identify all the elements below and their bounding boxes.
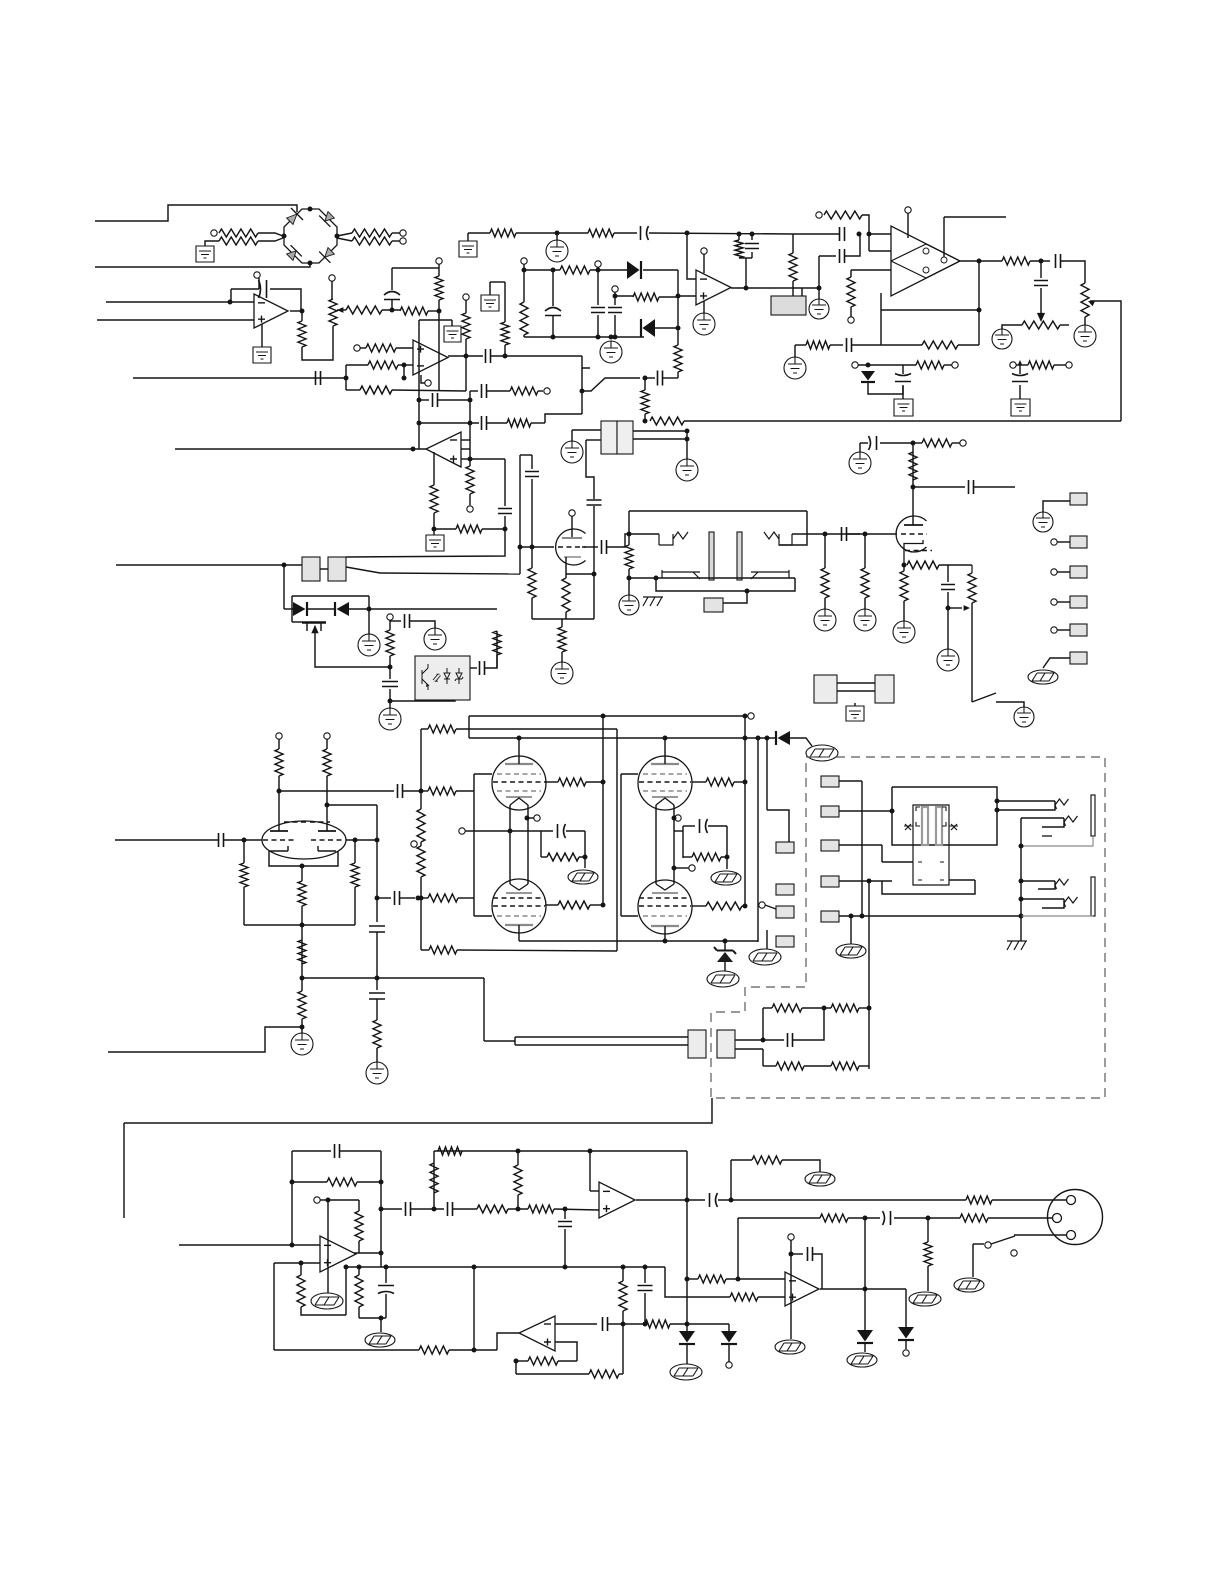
connector pin P401-2 (1070, 536, 1087, 548)
node 1218 b (926, 1216, 931, 1221)
wire R6 mid (382, 309, 400, 311)
jack J101 sleeve wire (1021, 836, 1093, 846)
ground chassis G33 (806, 745, 838, 761)
wire pin4 lead (1057, 601, 1070, 603)
diode D5 (335, 602, 349, 616)
wire fb row1 a (763, 1007, 772, 1009)
zener D8 (857, 1330, 873, 1343)
wire chassis riser b (766, 930, 768, 949)
node x687 b (685, 1322, 690, 1327)
wire d row ext (369, 608, 497, 610)
wire label stem (723, 591, 747, 603)
node V7 grid R (353, 838, 358, 843)
ground chassis G46 (775, 1340, 805, 1354)
resistor R51 (547, 853, 579, 861)
node U7 minus (290, 1243, 295, 1248)
terminal pin3 (1051, 569, 1057, 575)
wire fb row1 b (802, 1007, 831, 1009)
resistor R14 (824, 211, 862, 219)
wire R43 out (734, 781, 745, 783)
wire fb cap lead (763, 1039, 784, 1041)
wire pin3 lead (1057, 571, 1070, 573)
capacitor C52 (219, 833, 224, 847)
wire T2 rail578 (629, 577, 795, 579)
node D2 right (676, 326, 681, 331)
ground G17 (551, 662, 573, 684)
wire U5 below (469, 459, 471, 466)
resistor R46 (417, 809, 425, 842)
tube V4 (638, 756, 692, 810)
wire R14 right (862, 215, 869, 251)
node driveA x603 (601, 714, 606, 719)
wire plate riser (757, 738, 759, 942)
node R45 (743, 904, 748, 909)
ground chassis box G13 (1011, 399, 1030, 416)
ground chassis box G18 (426, 535, 444, 551)
V6 grid3 (643, 915, 687, 917)
jack J101 tip spring (1055, 799, 1069, 809)
wire X3 lead (839, 844, 882, 846)
wire K2 out slant (346, 567, 380, 573)
capacitor C1 feedback (259, 280, 267, 298)
wire U2 in2 (869, 250, 891, 252)
ground G30 (1033, 512, 1053, 532)
node K2d (672, 866, 677, 871)
wire F1 link2 (837, 690, 875, 692)
wire R61 top (301, 906, 303, 925)
wire pin6 lead (1043, 658, 1070, 668)
wire C11 right (1061, 261, 1085, 283)
node B+ c2 (756, 736, 761, 741)
wire V6 g lead (692, 905, 706, 907)
wire T3 tap row (882, 861, 913, 863)
relay contact K2a (302, 557, 320, 581)
diode D2 (641, 319, 655, 337)
wire out line1 (760, 1199, 966, 1201)
node net top (551, 268, 556, 273)
wire U8 out (636, 1199, 705, 1201)
wire R59 bot (243, 887, 245, 925)
V3 plate (505, 763, 533, 765)
wire rail1267 (346, 1266, 665, 1268)
node U3 plus (676, 294, 681, 299)
node y378b (643, 376, 648, 381)
wire V7 right drop (354, 840, 356, 863)
wire screen tie right (620, 774, 622, 916)
node bridge L (282, 234, 287, 239)
node x419 b (417, 421, 422, 426)
resistor R44 (558, 901, 590, 909)
V7 top dash a (284, 821, 306, 823)
ground chassis box G3 (481, 295, 499, 311)
wire G15 drop (571, 430, 573, 441)
node x346 (344, 1265, 349, 1270)
wire V2 plate stem (912, 443, 914, 525)
terminal U1 top (254, 272, 260, 278)
wire 1318 stem (380, 1318, 382, 1332)
resistor R49 (428, 787, 456, 795)
node J19 (613, 294, 618, 299)
resistor R56 (831, 1062, 859, 1070)
wire input y378 (133, 377, 346, 379)
wire x645 net (644, 1267, 646, 1283)
node bridge R (335, 234, 340, 239)
wire R15 bot (792, 281, 794, 296)
node jack common a (1019, 844, 1024, 849)
ground G15 (561, 441, 583, 463)
terminal U2 top (905, 207, 911, 213)
resistor R68 (430, 1163, 438, 1193)
resistor R54 (831, 1004, 859, 1012)
wire x505 loop (504, 459, 506, 506)
node prl a (663, 939, 668, 944)
node B+ a (517, 736, 522, 741)
resistor R57 (275, 749, 283, 776)
ground chassis G49 (670, 1364, 702, 1380)
resistor R50 (428, 894, 458, 902)
terminal J7 (816, 212, 822, 218)
wire R84 bot (358, 1307, 360, 1318)
wire K2d lead (674, 867, 689, 869)
capacitor C23 (482, 384, 487, 398)
node y1209 f (563, 1207, 568, 1212)
wire fb row1 c (859, 1007, 869, 1009)
wire C29 right (974, 486, 1015, 488)
terminal J13 (544, 388, 550, 394)
wire x520 (519, 455, 521, 574)
wire TB3 lead (765, 905, 776, 909)
wire R13 left (615, 295, 633, 297)
terminal TP5 (726, 1362, 732, 1368)
wire out line1 b (992, 1199, 1066, 1201)
capacitor C27 (480, 661, 485, 675)
wire U1 fb top (231, 288, 259, 290)
transformer T3 polarity marks (905, 824, 957, 830)
node out357 (503, 354, 508, 359)
terminal J1 (211, 230, 217, 236)
resistor R20 (916, 361, 944, 369)
node cath left (508, 829, 513, 834)
node T3 s1 (890, 809, 895, 814)
V4 grid1 (643, 773, 687, 775)
wire R61 bot (301, 925, 303, 978)
wire U4 minus drop (345, 365, 347, 378)
wire y791 c (421, 790, 428, 792)
terminal J3 (400, 238, 406, 244)
resistor R52 (692, 853, 721, 861)
wire R79 bot (622, 1311, 624, 1374)
terminal SW2 b (1011, 1250, 1017, 1256)
wire y345 mid (852, 344, 881, 346)
wire R36 bot (864, 598, 866, 609)
wire U9 minus row c (670, 1323, 729, 1325)
wire P1 stem (331, 281, 333, 299)
resistor R35 (821, 568, 829, 598)
V2 cathode hook (904, 540, 923, 565)
ground G8 (693, 313, 715, 335)
terminal TP3 (411, 841, 417, 847)
wire R83 top (300, 1263, 302, 1275)
node rail233 gnd (555, 231, 560, 236)
resistor R76 (730, 1293, 758, 1301)
node y529 (432, 527, 437, 532)
connector pin X3 (821, 840, 839, 851)
wire Q1 s1 (306, 623, 308, 631)
op-amp U10 (785, 1272, 819, 1306)
wire x284 drop (283, 565, 285, 609)
resistor R72 (966, 1196, 992, 1204)
wire J19 stem (614, 292, 616, 296)
ground chassis G34 (749, 949, 781, 965)
wire R23 top (531, 547, 533, 568)
wire G50 stem (794, 345, 796, 357)
transformer T2 winding a (659, 532, 688, 545)
node x419 a (417, 398, 422, 403)
node x615 bot (613, 335, 618, 340)
wire jack1 lead b (997, 801, 1055, 810)
ground G22 (619, 595, 639, 615)
wire T2 top (629, 510, 807, 512)
transformer T2 winding c (662, 570, 700, 579)
node T3 p2 (995, 808, 1000, 813)
ground chassis G37 (707, 971, 739, 987)
wire cath bus V4V6 b (673, 805, 675, 884)
wire C13 bot (1019, 385, 1021, 399)
wire minus riser (403, 365, 405, 378)
wire y950 lead (421, 949, 429, 951)
potentiometer P2 (1081, 283, 1089, 317)
node label tap (745, 589, 750, 594)
node V2 sg (911, 485, 916, 490)
wire T2 gnd stem (628, 578, 630, 595)
node V1 grid (530, 545, 535, 550)
node jack common b (1019, 897, 1024, 902)
wire R40 bot (903, 601, 905, 621)
jack plug PL2 (717, 1030, 735, 1058)
node rail233 e (685, 231, 690, 236)
wire driveA corner (468, 716, 470, 738)
wire R84 stem (358, 1267, 360, 1275)
node 1324 b (643, 1322, 648, 1327)
resistor R4 (352, 237, 392, 245)
resistor R86 (430, 485, 438, 513)
wire RC loop left (391, 268, 393, 290)
wire rail1151 a (434, 1150, 687, 1152)
wire fb row drop (345, 378, 347, 390)
wire x505 drop (346, 529, 505, 557)
V2 plate bar (904, 524, 923, 526)
wire y320 (419, 319, 452, 321)
wire U10 comp drop (790, 1240, 792, 1339)
ground chassis G38 (836, 944, 866, 958)
node U10 comp (789, 1252, 794, 1257)
wire U7 fb top a (292, 1150, 331, 1152)
transformer T3 winding bar 1 (922, 807, 928, 845)
wire U5 plus stub (461, 458, 470, 460)
wire V7b stem (326, 739, 328, 749)
wire long fb (124, 1098, 712, 1123)
jack J102 sleeve (1091, 877, 1095, 916)
capacitor C10 (840, 227, 845, 241)
node y1350 (472, 1348, 477, 1353)
wire C13 stem (1019, 365, 1021, 374)
V3 grid1 (497, 773, 541, 775)
ground chassis G35 (568, 870, 598, 884)
node U2 fb (977, 308, 982, 313)
capacitor C16 (525, 472, 539, 477)
node T1R1 (685, 429, 690, 434)
wire diode loop top (292, 595, 369, 597)
wire pin2 lead (1057, 541, 1070, 543)
wire RC1 rlead (541, 856, 547, 858)
wire C42 bot (564, 1229, 566, 1267)
wire spk join (514, 1037, 516, 1045)
wire cath bus V3V5 a (509, 805, 511, 884)
wire R35 bot (824, 598, 826, 609)
terminal K2c (675, 815, 681, 821)
resistor R9 (435, 276, 443, 300)
node J5 (596, 268, 601, 273)
wire C12 bot (1040, 288, 1042, 311)
ground chassis box G14 (894, 399, 913, 416)
resistor R19 (1028, 361, 1054, 369)
terminal V1 top (569, 510, 575, 516)
capacitor C29 (969, 480, 974, 494)
wire C31 stem (947, 565, 949, 582)
resistor R13 (633, 293, 659, 301)
resistor R10 (490, 229, 516, 237)
resistor R36 (861, 568, 869, 598)
wire d row a (284, 608, 293, 610)
wire V7b drop (326, 776, 328, 831)
wire R19 right (1054, 364, 1066, 366)
wire C27 right (485, 631, 497, 668)
resistor R90 (360, 386, 392, 394)
enclosure dashed box (711, 757, 1105, 1098)
wire pin5 lead (1057, 629, 1070, 631)
wire y423 jog (545, 414, 582, 423)
wire y925 (244, 924, 355, 926)
wire jack common (1020, 818, 1022, 941)
wire TP1 right (1060, 324, 1069, 326)
wire cap row621 b (410, 621, 435, 628)
wire 1218 a (848, 1217, 880, 1219)
wire x474 fb (473, 1267, 475, 1350)
wire V7 right (346, 839, 377, 841)
node bridge B (308, 261, 313, 266)
wire x615 bot (614, 315, 616, 337)
capacitor C12 (1034, 281, 1048, 286)
V4 beam bar (652, 796, 678, 798)
wire R34 bot (628, 569, 630, 578)
node U8 out (685, 1198, 690, 1203)
wire V7a drop (278, 776, 280, 831)
ground chassis G47 (365, 1333, 395, 1347)
wire U3 term stem (703, 254, 705, 273)
wire V1 plate out (582, 546, 598, 548)
node gray in (817, 286, 822, 291)
wire rail421 (684, 420, 1121, 422)
capacitor C5 (608, 308, 622, 313)
wire U10 out (820, 1288, 906, 1290)
node rail1267 d (643, 1265, 648, 1270)
terminal box TB4 (776, 936, 794, 947)
node opto in (388, 665, 393, 670)
wire 1218 b (894, 1217, 960, 1219)
wire x598 stem (597, 270, 599, 305)
ground G28 (937, 649, 959, 671)
capacitor C50 polarized (384, 292, 400, 300)
wire R24 bot (565, 612, 567, 619)
node rail1267 c (621, 1265, 626, 1270)
wire SW1 out (996, 702, 1024, 707)
node in378 (344, 376, 349, 381)
capacitor C25 (405, 614, 410, 628)
wire C9 right (845, 234, 860, 256)
resistor R61 (298, 881, 306, 906)
resistor R24 (562, 578, 570, 612)
terminal J4 (521, 258, 527, 264)
node fb c (761, 1038, 766, 1043)
V1 cathode (564, 556, 581, 558)
wire left drop (123, 1123, 125, 1218)
diode D1 (627, 261, 641, 279)
terminal U3 top (701, 248, 707, 254)
wire pin1 lead (1043, 501, 1070, 512)
wire V3 top (518, 738, 520, 756)
ground chassis G23 (643, 597, 663, 606)
wire C26 bot (389, 689, 391, 708)
wire C14 bot (902, 385, 904, 399)
wire V5 stem ext (518, 933, 520, 941)
node bias (946, 606, 951, 611)
ground G7 (546, 240, 568, 262)
wire TP1 left (1002, 325, 1022, 329)
V5 grid2 (493, 905, 545, 907)
node U7 out (379, 1251, 384, 1256)
wire PL2 out2 (735, 1048, 763, 1050)
ground G26 (849, 452, 871, 474)
jack J102 tip spring (1055, 879, 1069, 889)
wire V7 cath stem (301, 866, 303, 881)
wire RC join (739, 257, 752, 259)
wire plate rail low (519, 940, 758, 942)
resistor R59 (240, 863, 248, 887)
wire jack2 tick (1042, 818, 1064, 827)
wire R5 top (301, 311, 303, 321)
wire R46-47 link (420, 842, 422, 846)
wire J9 row (1016, 364, 1028, 366)
node K2c (672, 816, 677, 821)
resistor R79 (619, 1281, 627, 1311)
resistor R34 (625, 545, 633, 569)
wire D-node riser (677, 270, 679, 327)
node RC2 (725, 855, 730, 860)
resistor R12 (735, 240, 743, 258)
wire switch SW1 lever (972, 693, 996, 702)
wire C7 stems (751, 234, 753, 240)
zener D7 (714, 947, 736, 962)
wire U7 fb mid b (357, 1181, 381, 1183)
terminal SW2 a (985, 1242, 991, 1248)
node V2 grid in (863, 532, 868, 537)
wire net bottom (524, 336, 644, 338)
wire screen tie left (473, 774, 475, 916)
wire y574 (380, 573, 520, 574)
connector pin X5 (821, 911, 839, 922)
wire V6 stem ext (664, 934, 666, 941)
node net bottom (609, 335, 614, 340)
